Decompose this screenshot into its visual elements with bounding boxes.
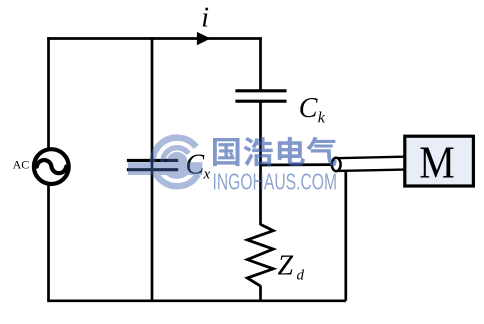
motor box M <box>405 136 474 186</box>
watermark logo <box>128 138 202 187</box>
svg-text:i: i <box>201 2 209 33</box>
svg-text:AC: AC <box>13 157 30 171</box>
label Ck <box>299 93 326 126</box>
svg-text:C: C <box>299 93 318 124</box>
resistor Zd (zigzag) <box>247 224 273 286</box>
watermark chinese text <box>213 137 337 166</box>
capacitor Cx <box>127 160 178 169</box>
svg-text:k: k <box>318 110 326 127</box>
coaxial cable to M <box>332 157 404 172</box>
wire: right branch middle (Ck bottom plate through junction to Zd top) <box>259 103 262 226</box>
wire: top horizontal from left branch to right branch <box>47 37 262 40</box>
wire: junction to cable end <box>259 163 333 166</box>
svg-text:M: M <box>419 136 455 187</box>
current arrow on top wire <box>197 32 211 45</box>
wire: right branch upper (top corner to Ck top plate) <box>259 37 262 89</box>
capacitor Ck <box>235 91 286 101</box>
label Cx <box>186 150 211 183</box>
wire: bottom horizontal <box>47 299 346 302</box>
wire: Zd bottom to bottom wire <box>259 286 262 301</box>
svg-text:INGOHAUS.COM: INGOHAUS.COM <box>213 168 338 194</box>
svg-text:Z: Z <box>278 250 294 281</box>
svg-text:d: d <box>297 268 305 284</box>
watermark <box>128 137 337 195</box>
AC source <box>34 149 69 184</box>
label Zd <box>278 250 305 283</box>
wire: Cx branch vertical (continuous) <box>151 37 154 301</box>
svg-text:x: x <box>203 166 211 182</box>
wire: M return vertical to bottom wire <box>344 170 347 301</box>
wire: left vertical (source branch) <box>47 37 50 301</box>
